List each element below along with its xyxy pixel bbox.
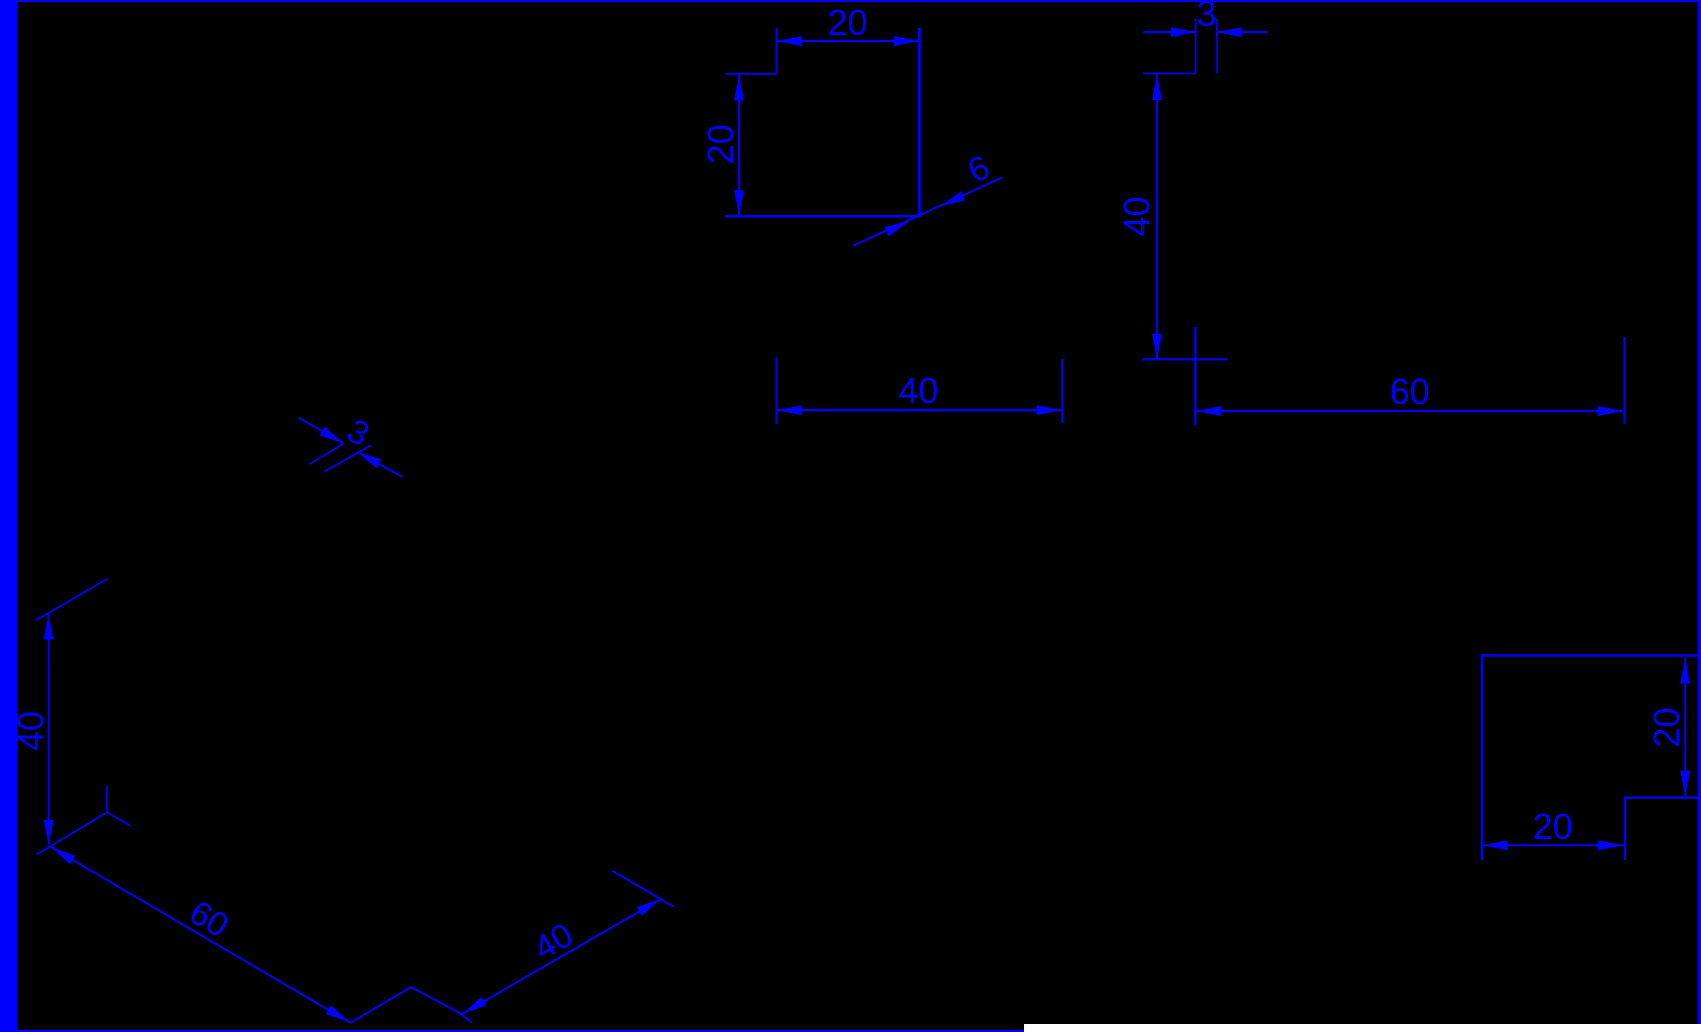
svg-text:20: 20 xyxy=(700,124,741,164)
svg-text:20: 20 xyxy=(1646,708,1687,748)
svg-text:20: 20 xyxy=(1533,806,1573,847)
svg-text:40: 40 xyxy=(1116,196,1157,236)
svg-text:40: 40 xyxy=(898,370,938,411)
svg-text:3: 3 xyxy=(1196,0,1216,34)
svg-text:40: 40 xyxy=(10,711,51,751)
svg-text:20: 20 xyxy=(827,2,867,43)
svg-text:60: 60 xyxy=(1390,371,1430,412)
